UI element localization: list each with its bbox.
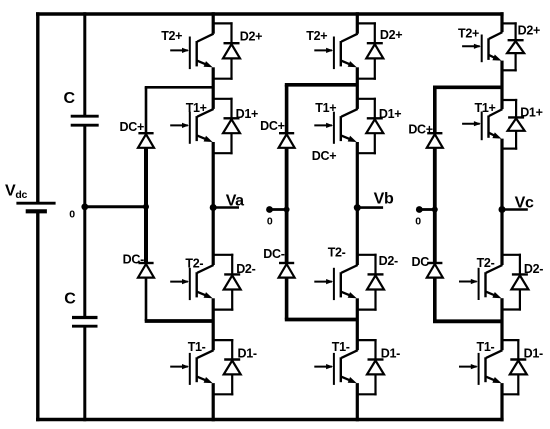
node Vc (phase c output) (499, 206, 506, 213)
svg-text:D1-: D1- (238, 347, 257, 361)
diode DC+ (phase b clamp) (279, 133, 295, 148)
wire: phase c switch column segment 5 (500, 383, 503, 421)
wire: clamp column DC+ to neutral node (phase b) (285, 148, 289, 210)
wire: phase b switch column segment 3 (356, 142, 359, 265)
svg-text:D2-: D2- (379, 254, 398, 268)
transistor T1+ (phase b IGBT) (314, 109, 357, 144)
transistor T2+ (phase c IGBT) (462, 32, 502, 62)
wire: clamp column below DC- (phase a) (145, 278, 148, 321)
wire: phase a switch column segment 4 (212, 298, 215, 350)
transistor T2- (phase c IGBT) (459, 265, 502, 300)
diode DC- (phase b clamp) (279, 263, 295, 278)
svg-text:D1+: D1+ (520, 106, 542, 120)
node: neutral junction on clamp column (phase c) (432, 207, 438, 213)
wire: phase a switch column segment 1 (212, 12, 215, 34)
diode D1+ (phase b freewheeling) (366, 98, 383, 155)
wire: left rail upper (Vdc + to top bus) (36, 12, 39, 203)
svg-text:T2+: T2+ (458, 27, 479, 41)
svg-text:T1+: T1+ (186, 101, 207, 115)
wire: phase c output stub (502, 208, 528, 211)
svg-text:D1-: D1- (524, 347, 543, 361)
wire: clamp column above DC+ (phase b) (285, 85, 289, 134)
svg-text:0: 0 (69, 209, 75, 221)
svg-text:T2-: T2- (185, 257, 203, 271)
wire: phase b switch column segment 1 (356, 12, 359, 34)
wire: clamp column below DC- (phase b) (285, 278, 289, 320)
wire: 0 stub to clamp column (phase c) (419, 208, 435, 211)
wire: clamp column neutral to DC- (phase b) (285, 210, 289, 264)
wire: phase b output stub (357, 206, 383, 209)
wire: neutral 0 to phase-a clamp column (85, 205, 146, 208)
wire: clamp bottom (DC- column to T2-/T1- midpoint, phase b) (285, 318, 358, 322)
wire: clamp top (T2+/T1+ midpoint to DC+ column, phase a) (145, 86, 214, 89)
svg-text:D2+: D2+ (240, 30, 262, 44)
diode D2+ (phase b freewheeling) (366, 22, 383, 80)
wire: capacitor column middle (C upper to C lower through node 0) (83, 126, 86, 316)
svg-text:D1+: D1+ (236, 107, 258, 121)
diode D1- (phase b freewheeling) (367, 339, 384, 395)
svg-text:T1+: T1+ (315, 101, 336, 115)
wire: clamp column DC+ to neutral node (phase c) (433, 148, 437, 210)
wire: T1+/D1+ top stub (phase b) (357, 98, 376, 100)
wire: phase b switch column segment 5 (356, 383, 359, 421)
wire: T2+/D2+ top stub (phase c) (502, 22, 517, 24)
capacitor C (upper) (71, 116, 99, 125)
wire: phase a switch column segment 3 (212, 142, 215, 265)
node 0 (neutral point junction) (81, 203, 88, 210)
wire: T1-/D1- top stub (phase c) (502, 339, 519, 341)
diode D2+ (phase c freewheeling) (507, 22, 524, 71)
diode DC+ (phase a clamp) (138, 133, 154, 148)
wire: clamp top (T2+/T1+ midpoint to DC+ column, phase b) (285, 83, 358, 87)
svg-text:DC-: DC- (263, 247, 284, 261)
wire: top DC+ bus (36, 12, 504, 16)
svg-text:Va: Va (226, 193, 244, 210)
svg-text:T2-: T2- (477, 256, 495, 270)
svg-text:0: 0 (415, 216, 421, 228)
wire: capacitor column bottom (C lower to bottom bus) (83, 327, 86, 421)
svg-text:Vb: Vb (374, 191, 394, 208)
svg-text:D1-: D1- (381, 347, 400, 361)
svg-text:DC+: DC+ (120, 120, 144, 134)
wire: T1+/D1+ top stub (phase c) (502, 99, 517, 101)
diode DC+ (phase c clamp) (427, 133, 443, 148)
wire: clamp column above DC+ (phase a) (145, 87, 148, 133)
diode DC- (phase a clamp) (138, 263, 154, 278)
node Vb (phase b output) (354, 204, 361, 211)
wire: T1-/D1- bottom stub (phase c) (502, 393, 519, 395)
wire: T1+/D1+ bottom stub (phase a) (213, 152, 232, 154)
wire: clamp bottom (DC- column to T2-/T1- midpoint, phase c) (433, 319, 502, 323)
wire: phase c switch column segment 1 (500, 12, 503, 32)
transistor T1+ (phase c IGBT) (462, 109, 502, 140)
svg-text:0: 0 (267, 216, 273, 228)
wire: T1+/D1+ top stub (phase a) (213, 98, 232, 100)
wire: phase c switch column segment 3 (500, 139, 503, 265)
svg-text:T1+: T1+ (475, 101, 496, 115)
diode D2- (phase b freewheeling) (367, 254, 384, 311)
svg-text:D2+: D2+ (518, 24, 540, 38)
svg-text:C: C (64, 90, 76, 107)
svg-text:DC-: DC- (411, 255, 432, 269)
wire: clamp column DC+ to neutral node (phase a) (144, 148, 148, 207)
diode D1+ (phase c freewheeling) (508, 99, 525, 150)
svg-text:D2-: D2- (524, 262, 543, 276)
transistor T1- (phase b IGBT) (314, 350, 357, 385)
diode D1+ (phase a freewheeling) (223, 98, 240, 155)
svg-text:DC-: DC- (123, 253, 144, 267)
wire: T2-/D2- top stub (phase c) (502, 254, 521, 256)
node 0 (phase b neutral tap) (266, 206, 273, 213)
svg-text:Vdc: Vdc (5, 183, 27, 202)
svg-text:T2-: T2- (328, 245, 346, 259)
svg-text:T2+: T2+ (161, 29, 182, 43)
wire: clamp column above DC+ (phase c) (433, 87, 437, 133)
wire: T2+/D2+ top stub (phase a) (213, 22, 232, 24)
wire: phase b switch column segment 2 (356, 67, 359, 109)
transistor T2+ (phase b IGBT) (314, 34, 357, 69)
wire: T1-/D1- top stub (phase b) (357, 339, 376, 341)
svg-text:D2+: D2+ (380, 28, 402, 42)
node: neutral junction on clamp column (phase a) (143, 204, 149, 210)
wire: T1-/D1- bottom stub (phase a) (213, 393, 233, 395)
transistor T1- (phase c IGBT) (459, 350, 502, 385)
svg-text:D2-: D2- (236, 262, 255, 276)
svg-text:DC+: DC+ (408, 123, 432, 137)
wire: clamp column neutral to DC- (phase c) (433, 210, 437, 264)
svg-text:T1-: T1- (188, 340, 206, 354)
wire: phase c switch column segment 2 (500, 61, 503, 110)
wire: T2-/D2- top stub (phase a) (213, 254, 233, 256)
svg-text:T1-: T1- (332, 340, 350, 354)
node Va (phase a output) (210, 204, 217, 211)
node: neutral junction on clamp column (phase b) (284, 207, 290, 213)
capacitor C (lower) (72, 318, 98, 327)
wire: phase a switch column segment 2 (212, 67, 215, 109)
wire: T2+/D2+ top stub (phase b) (357, 22, 376, 24)
transistor T1+ (phase a IGBT) (170, 109, 213, 144)
wire: phase a switch column segment 5 (212, 383, 215, 421)
wire: 0 stub to clamp column (phase b) (270, 208, 287, 211)
wire: clamp top (T2+/T1+ midpoint to DC+ column, phase c) (433, 86, 502, 90)
wire: T1-/D1- bottom stub (phase b) (357, 393, 376, 395)
svg-text:Vc: Vc (515, 195, 534, 212)
diode D2- (phase a freewheeling) (224, 254, 241, 311)
svg-text:DC+: DC+ (312, 149, 336, 163)
diode D2- (phase c freewheeling) (511, 254, 528, 311)
wire: T1+/D1+ bottom stub (phase c) (502, 148, 517, 150)
diode D2+ (phase a freewheeling) (223, 22, 240, 80)
battery Vdc (16, 203, 55, 211)
transistor T1- (phase a IGBT) (170, 350, 213, 385)
wire: T2+/D2+ bottom stub (phase b) (357, 78, 376, 80)
wire: clamp bottom (DC- column to T2-/T1- midpoint, phase a) (145, 319, 214, 323)
svg-text:C: C (64, 290, 76, 307)
wire: clamp column below DC- (phase c) (433, 278, 437, 322)
svg-text:T2+: T2+ (306, 29, 327, 43)
diode D1- (phase a freewheeling) (224, 339, 241, 395)
transistor T2- (phase a IGBT) (170, 265, 213, 300)
diode DC- (phase c clamp) (427, 263, 443, 278)
transistor T2+ (phase a IGBT) (170, 34, 213, 69)
wire: capacitor column top (bus to C upper) (83, 12, 86, 115)
wire: clamp column neutral to DC- (phase a) (144, 207, 148, 263)
wire: left rail lower (Vdc - to bottom bus) (36, 212, 39, 422)
wire: T1-/D1- top stub (phase a) (213, 339, 233, 341)
diode D1- (phase c freewheeling) (510, 339, 527, 395)
wire: phase b switch column segment 4 (356, 298, 359, 350)
wire: phase a output stub (213, 206, 239, 209)
node 0 (phase c neutral tap) (416, 206, 423, 213)
wire: T2-/D2- bottom stub (phase c) (502, 308, 521, 310)
svg-text:DC+: DC+ (260, 119, 284, 133)
transistor T2- (phase b IGBT) (314, 265, 357, 300)
svg-text:D1+: D1+ (379, 107, 401, 121)
wire: T2-/D2- bottom stub (phase b) (357, 309, 376, 311)
wire: T2+/D2+ bottom stub (phase a) (213, 78, 232, 80)
wire: T2-/D2- top stub (phase b) (357, 254, 376, 256)
wire: bottom DC- bus (36, 418, 504, 422)
wire: T1+/D1+ bottom stub (phase b) (357, 152, 376, 154)
svg-text:T1-: T1- (477, 340, 495, 354)
wire: T2-/D2- bottom stub (phase a) (213, 309, 233, 311)
wire: T2+/D2+ bottom stub (phase c) (502, 69, 517, 71)
wire: phase c switch column segment 4 (500, 298, 503, 350)
